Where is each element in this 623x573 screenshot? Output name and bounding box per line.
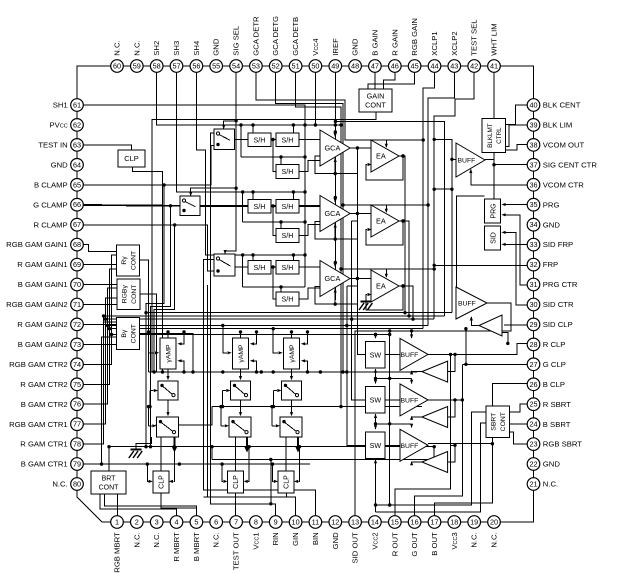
wire SH1 bus from pin 61	[83, 105, 305, 287]
wire gamma amp to switch	[291, 369, 293, 378]
gain controlled amp GCA row3	[320, 261, 350, 297]
wire BUFF fb right	[448, 400, 455, 417]
svg-text:57: 57	[172, 62, 180, 71]
svg-text:RGB GAM CTR2: RGB GAM CTR2	[9, 360, 68, 369]
wire top-left corner link	[77, 66, 117, 105]
svg-text:N.C.: N.C.	[152, 532, 161, 547]
pin 19 (N.C.)	[468, 516, 481, 529]
output buffer BUFFa	[400, 338, 428, 370]
wire TEST SEL pin42 trunk	[434, 72, 474, 319]
wire SH1 drop row3 extra	[304, 286, 306, 288]
svg-text:γAMP: γAMP	[166, 344, 173, 363]
svg-text:56: 56	[192, 62, 200, 71]
ground G2	[129, 450, 142, 459]
wire GCA row3 feedback loop	[315, 279, 357, 305]
pin 65 (B CLAMP)	[71, 179, 84, 192]
pin 37 (SIG CENT CTR)	[527, 159, 540, 172]
svg-text:R CLAMP: R CLAMP	[34, 220, 68, 229]
svg-text:CONT: CONT	[99, 485, 120, 492]
svg-text:B OUT: B OUT	[430, 532, 439, 556]
wire pin70 to gamma CONT	[83, 284, 116, 286]
wire gamma amp top feed	[167, 332, 169, 338]
pin 50 (V)	[309, 60, 322, 73]
wire EA row1 feedback loop	[366, 156, 403, 180]
wire CTR pin75 bus	[83, 329, 423, 385]
pin 80 (N.C.)	[71, 478, 84, 491]
wire SW-BUFF distribution rail	[389, 331, 391, 505]
wire left tri0 to BUFF2 arrow	[471, 317, 479, 326]
wire CLP right loop riser	[248, 447, 249, 482]
pulse regen block PRG	[485, 199, 501, 223]
svg-text:PRG CTR: PRG CTR	[543, 280, 578, 289]
svg-text:25: 25	[529, 400, 537, 409]
svg-text:17: 17	[430, 518, 438, 527]
wire pin69 to gamma CONT	[83, 264, 116, 266]
wire CLP2 output to pin7	[235, 493, 237, 516]
wire rowB switch output down arrow	[174, 437, 176, 448]
svg-text:66: 66	[73, 200, 81, 209]
svg-text:15: 15	[391, 518, 399, 527]
wire IREF pin49 trunk	[334, 72, 336, 300]
wire gamma amp to switch	[240, 369, 242, 378]
wire GCA DETG pin52	[276, 72, 428, 205]
sync id block SID	[485, 226, 501, 250]
pin 2 (N.C.)	[131, 516, 144, 529]
wire switch A left arrow	[150, 390, 154, 392]
wire pin28 LT0 step	[503, 333, 508, 344]
pin 21 (N.C.)	[527, 478, 540, 491]
wire SBRT CONT left output 2	[376, 423, 486, 512]
svg-text:SW: SW	[370, 395, 382, 404]
pin 69 (R GAM GAIN1)	[71, 258, 84, 271]
pin 20 (N.C.)	[488, 516, 501, 529]
wire CLP left loop riser	[273, 464, 274, 481]
svg-text:R OUT: R OUT	[390, 532, 399, 556]
svg-text:B CLAMP: B CLAMP	[34, 180, 68, 189]
svg-text:11: 11	[312, 518, 320, 527]
svg-text:42: 42	[470, 62, 478, 71]
svg-text:RGB GAIN: RGB GAIN	[410, 18, 419, 56]
svg-text:S/H: S/H	[254, 135, 266, 144]
svg-text:SID CLP: SID CLP	[543, 320, 573, 329]
wire pin33 SID FRP arrow	[506, 243, 528, 245]
clamp block CLP ch2	[228, 471, 244, 493]
gain controlled amp GCA row1	[320, 130, 350, 166]
wire EA row3 output	[399, 286, 413, 319]
wire gamma amp bottom-right arrow	[182, 361, 184, 372]
gamma switch rowA ch3	[282, 381, 302, 400]
svg-text:GCA DETR: GCA DETR	[251, 16, 260, 56]
svg-text:58: 58	[153, 62, 161, 71]
pin 62 (PV)	[71, 119, 84, 132]
wire SW2 bottom link	[375, 419, 377, 424]
gamma amplifier gAMP ch3	[284, 338, 300, 369]
pin 54 (SIG SEL)	[230, 60, 243, 73]
switch block SW1	[366, 342, 386, 368]
wire row1 switch to S/H chain	[235, 139, 249, 141]
wire switch B left arrow	[221, 425, 225, 427]
svg-text:SW: SW	[370, 441, 382, 450]
gain controlled amp GCA row2	[320, 196, 350, 232]
wire row3 extra clock bus	[242, 255, 244, 287]
wire rowB switch output down arrow	[246, 437, 248, 448]
node SH1 bus junctions	[303, 123, 306, 126]
wire BRT CONT to pin1	[116, 494, 118, 516]
wire pin27 G CLP	[462, 363, 527, 365]
wire BUFF fb left arrow	[412, 370, 422, 373]
wire R CLAMP branch down	[154, 225, 175, 372]
svg-text:50: 50	[311, 62, 319, 71]
svg-text:S/H: S/H	[282, 167, 294, 176]
svg-text:68: 68	[73, 240, 81, 249]
pin 26 (B CLP)	[527, 378, 540, 391]
pin 48 (GND)	[349, 60, 362, 73]
svg-text:34: 34	[529, 220, 537, 229]
pin 3 (N.C.)	[150, 516, 163, 529]
svg-text:N.C.: N.C.	[52, 480, 67, 489]
wire gamma amp left arrow	[149, 332, 155, 353]
clamp block CLP ch3	[278, 471, 294, 493]
svg-text:PRG: PRG	[543, 200, 560, 209]
svg-text:S/H: S/H	[282, 263, 294, 272]
wire bottom-left diagonal link	[77, 484, 117, 522]
svg-text:23: 23	[529, 440, 537, 449]
pin 38 (VCOM OUT)	[527, 139, 540, 152]
svg-text:RGBγ: RGBγ	[121, 285, 128, 304]
svg-text:65: 65	[73, 180, 81, 189]
pin 43 (XCLP2)	[448, 60, 461, 73]
svg-text:27: 27	[529, 360, 537, 369]
svg-text:GCA: GCA	[325, 144, 341, 153]
wire switch B to CLP	[285, 437, 287, 471]
svg-text:GND: GND	[51, 160, 69, 169]
wire SH1 drop row2 extra	[243, 221, 305, 223]
wire GCA row3 output	[350, 278, 371, 280]
wire feeder to SW3	[347, 286, 366, 445]
svg-text:BUFF: BUFF	[401, 352, 419, 359]
svg-text:39: 39	[529, 120, 537, 129]
svg-text:7: 7	[234, 518, 238, 527]
pin 77 (RGB GAM CTR1)	[71, 418, 84, 431]
pin 40 (BLK CENT)	[527, 99, 540, 112]
svg-text:N.C.: N.C.	[470, 532, 479, 547]
svg-text:67: 67	[73, 220, 81, 229]
pin 44 (XCLP1)	[428, 60, 441, 73]
svg-text:49: 49	[331, 62, 339, 71]
svg-text:R SBRT: R SBRT	[543, 400, 571, 409]
wire row2 switch to S/H chain	[200, 205, 248, 207]
wire G CLAMP branch down	[151, 206, 171, 447]
svg-text:GND: GND	[331, 532, 340, 550]
sample-hold S/H row3 extra	[276, 292, 299, 306]
sample-hold S/H row3 b	[276, 261, 299, 275]
wire top-right corner link	[494, 66, 534, 105]
svg-text:S/H: S/H	[254, 263, 266, 272]
output buffer BUFFb	[400, 384, 428, 416]
svg-text:R GAM CTR1: R GAM CTR1	[20, 440, 67, 449]
svg-text:B GAM GAIN2: B GAM GAIN2	[18, 340, 68, 349]
svg-text:CLP: CLP	[158, 475, 165, 489]
svg-text:71: 71	[73, 300, 81, 309]
svg-text:72: 72	[73, 320, 81, 329]
svg-text:69: 69	[73, 260, 81, 269]
svg-text:BUFF: BUFF	[458, 158, 476, 165]
sample-hold S/H row2 a	[248, 200, 271, 214]
svg-text:63: 63	[73, 140, 81, 149]
svg-text:BIN: BIN	[311, 532, 320, 545]
pin 25 (R SBRT)	[527, 398, 540, 411]
svg-text:70: 70	[73, 280, 81, 289]
wire CLP1 output	[161, 493, 197, 508]
gamma amplifier gAMP ch2	[233, 338, 249, 369]
pin 27 (G CLP)	[527, 358, 540, 371]
wire EA row1 output	[399, 156, 405, 313]
pin 45 (RGB GAIN)	[408, 60, 421, 73]
wire SIG SEL branch row2 switch	[191, 188, 236, 195]
svg-text:BUFF: BUFF	[401, 443, 419, 450]
pin 49 (IREF)	[329, 60, 342, 73]
svg-text:VCC2: VCC2	[370, 532, 379, 549]
svg-text:SW: SW	[370, 350, 382, 359]
svg-text:G CLP: G CLP	[543, 360, 566, 369]
svg-text:14: 14	[371, 518, 379, 527]
pin 32 (FRP)	[527, 258, 540, 271]
svg-text:26: 26	[529, 380, 537, 389]
wire SW3 to BUFF	[385, 444, 400, 446]
svg-text:77: 77	[73, 420, 81, 429]
pin 42 (TEST SEL)	[468, 60, 481, 73]
svg-text:SH2: SH2	[152, 41, 161, 56]
wire CLP right loop riser	[299, 447, 300, 482]
wire XCLP1 pin44 trunk	[423, 72, 434, 328]
wire switch A to switch B	[240, 400, 242, 413]
svg-text:38: 38	[529, 140, 537, 149]
svg-text:SID: SID	[490, 232, 497, 244]
svg-text:1: 1	[115, 518, 119, 527]
svg-text:B GAM CTR1: B GAM CTR1	[21, 460, 68, 469]
svg-text:N.C.: N.C.	[490, 532, 499, 547]
svg-text:S/H: S/H	[282, 231, 294, 240]
wire pin32 FRP	[434, 264, 527, 266]
wire row2 extra S/H to GCA	[299, 225, 320, 236]
pin 68 (RGB GAM GAIN1)	[71, 238, 84, 251]
wire pin31 PRG CTR	[506, 215, 528, 285]
svg-text:2: 2	[135, 518, 139, 527]
wire CLP block output	[133, 167, 163, 372]
svg-text:RGB GAM GAIN1: RGB GAM GAIN1	[6, 240, 68, 249]
wire pin38 VCOM OUT	[506, 145, 528, 151]
wire bus 312.7	[146, 312, 452, 314]
svg-text:SID OUT: SID OUT	[351, 532, 360, 563]
wire row2 pair clock drops	[252, 192, 254, 200]
black limit control BLKLMT CTRL	[482, 119, 506, 153]
svg-text:TEST IN: TEST IN	[38, 141, 67, 150]
wire BLKLMT to pin40	[506, 105, 528, 125]
svg-text:GCA: GCA	[325, 209, 341, 218]
svg-text:29: 29	[529, 320, 537, 329]
wire SW1 top arrow	[375, 335, 377, 339]
svg-text:N.C.: N.C.	[212, 532, 221, 547]
svg-text:28: 28	[529, 340, 537, 349]
wire R OUT pin15	[395, 354, 451, 515]
svg-text:79: 79	[73, 460, 81, 469]
svg-text:R GAM GAIN2: R GAM GAIN2	[17, 320, 67, 329]
svg-text:PVCC: PVCC	[49, 121, 67, 130]
wire SBRT CONT left outputs	[376, 412, 486, 505]
wire CTR riser 76 up to RGB gamma CONT	[108, 288, 117, 326]
wire WHT LIM pin41 into BLKLMT	[493, 72, 495, 118]
wire G OUT pin16	[415, 400, 463, 516]
sample-hold S/H row2 extra	[276, 229, 299, 243]
switch block SW3	[366, 432, 386, 458]
wire switch B left arrow	[149, 425, 153, 427]
wire BUFF-b output	[428, 364, 462, 400]
svg-text:24: 24	[529, 420, 537, 429]
wire B OUT pin17	[435, 444, 493, 516]
pin 17 (B OUT)	[428, 516, 441, 529]
wire switch B to CLP	[160, 437, 162, 471]
wire gamma amp top feed	[291, 332, 293, 338]
wire switch B to CLP	[235, 437, 237, 471]
svg-text:19: 19	[470, 518, 478, 527]
gamma switch rowB ch1	[157, 417, 179, 437]
svg-text:S/H: S/H	[282, 135, 294, 144]
pin 64 (GND)	[71, 159, 84, 172]
wire pin71 to gamma CONT	[83, 304, 116, 306]
svg-text:5: 5	[194, 518, 198, 527]
svg-text:73: 73	[73, 340, 81, 349]
svg-text:64: 64	[73, 160, 81, 169]
wire CTR riser 79 up to B gamma CONT	[102, 337, 117, 464]
pin 28 (R CLP)	[527, 338, 540, 351]
clamp pulse block CLP	[118, 150, 145, 167]
wire CLP left loop riser	[147, 464, 148, 481]
sample-hold S/H row2 b	[276, 200, 299, 214]
svg-text:CONT: CONT	[365, 101, 386, 110]
svg-text:GCA DETB: GCA DETB	[291, 17, 300, 56]
wire CTR riser 77 up to RGB gamma CONT	[106, 298, 117, 319]
wire SW1 to BUFF	[385, 353, 400, 355]
gamma control RGBg CONT	[117, 279, 140, 310]
svg-text:B MBRT: B MBRT	[192, 532, 201, 561]
svg-text:6: 6	[214, 518, 218, 527]
svg-text:RGB SBRT: RGB SBRT	[543, 440, 582, 449]
wire row3 pair clock drops	[252, 255, 254, 261]
wire right pin column	[533, 105, 535, 484]
svg-text:R GAIN: R GAIN	[390, 29, 399, 55]
pin 60 (N.C.)	[111, 60, 124, 73]
wire switch A left arrow	[223, 390, 227, 392]
wire SW2 to BUFF	[385, 399, 400, 401]
svg-text:TEST OUT: TEST OUT	[232, 532, 241, 570]
svg-text:B GAM GAIN1: B GAM GAIN1	[18, 280, 68, 289]
pin 18 (V)	[448, 516, 461, 529]
svg-text:SBRT: SBRT	[491, 413, 498, 431]
pin 75 (R GAM CTR2)	[71, 378, 84, 391]
svg-text:Bγ: Bγ	[121, 329, 128, 338]
svg-text:46: 46	[391, 62, 399, 71]
svg-text:GCA: GCA	[325, 274, 341, 283]
svg-text:VCC4: VCC4	[311, 38, 320, 56]
wire pin72 to gamma CONT	[83, 323, 116, 325]
wire switch A left arrow	[274, 390, 278, 392]
svg-text:8: 8	[254, 518, 258, 527]
output buffer BUFFc	[400, 429, 428, 461]
svg-text:44: 44	[430, 62, 438, 71]
wire gamma amp bottom-right arrow	[254, 361, 256, 372]
wire pin30 SID CTR	[506, 232, 528, 305]
wire bottom-right corner link	[494, 484, 534, 522]
wire row3 extra S/H input tap	[273, 267, 276, 299]
svg-text:XCLP1: XCLP1	[430, 31, 439, 55]
wire top pin row	[117, 65, 494, 67]
wire R GAIN pin46 to GAIN CONT	[384, 72, 395, 89]
svg-text:47: 47	[371, 62, 379, 71]
wire SIG SEL pin54 trunk	[225, 72, 236, 251]
wire switch A to switch B	[167, 400, 169, 413]
wire SH4 pin56 to row3 sample bus	[196, 72, 305, 255]
svg-text:GND: GND	[543, 220, 561, 229]
svg-text:B SBRT: B SBRT	[543, 420, 571, 429]
clamp block CLP ch1	[153, 471, 169, 493]
error amp EA row2	[371, 205, 399, 237]
wire gamma amp top-right arrow	[305, 332, 307, 344]
wire pin36 VCOM CTR	[471, 170, 527, 185]
wire BUFF fb right	[448, 354, 455, 371]
pin 15 (R OUT)	[389, 516, 402, 529]
svg-text:RGB MBRT: RGB MBRT	[113, 532, 122, 573]
svg-text:32: 32	[529, 260, 537, 269]
svg-text:4: 4	[174, 518, 178, 527]
pin 23 (RGB SBRT)	[527, 438, 540, 451]
pin 56 (SH4)	[190, 60, 203, 73]
pin 5 (B MBRT)	[190, 516, 203, 529]
svg-text:37: 37	[529, 160, 537, 169]
wire GCA DETB pin51	[296, 72, 435, 269]
pin 55 (GND)	[210, 60, 223, 73]
svg-text:GIN: GIN	[291, 532, 300, 546]
pin 61 (SH1)	[71, 99, 84, 112]
svg-text:9: 9	[274, 518, 278, 527]
svg-text:CONT: CONT	[500, 412, 507, 431]
wire BUFF1 output node	[485, 158, 494, 160]
wire link bus to RIN line	[270, 460, 272, 504]
wire pin73 to gamma CONT	[83, 343, 116, 345]
pin 70 (B GAM GAIN1)	[71, 278, 84, 291]
svg-text:IREF: IREF	[331, 38, 340, 56]
svg-text:CONT: CONT	[130, 251, 137, 270]
svg-text:12: 12	[331, 518, 339, 527]
wire EA row3 feedback loop	[366, 286, 403, 310]
svg-text:BLK LIM: BLK LIM	[543, 121, 572, 130]
svg-text:40: 40	[529, 101, 537, 110]
svg-text:31: 31	[529, 280, 537, 289]
gamma control Rg CONT	[117, 245, 140, 276]
wire R CLAMP pin67	[83, 225, 218, 271]
wire BUFF fb right	[448, 445, 455, 462]
wire CTR riser 74 up to R gamma CONT	[112, 255, 117, 335]
sample-hold S/H row1 b	[276, 133, 299, 147]
wire gamma amp left arrow	[273, 329, 278, 353]
svg-text:21: 21	[529, 480, 537, 489]
svg-text:20: 20	[490, 518, 498, 527]
svg-text:RGB GAM CTR1: RGB GAM CTR1	[9, 420, 68, 429]
svg-text:36: 36	[529, 180, 537, 189]
svg-text:53: 53	[252, 62, 260, 71]
wire EA row2 output	[399, 221, 409, 316]
svg-text:N.C.: N.C.	[132, 40, 141, 55]
output feedback tri c	[422, 452, 448, 473]
